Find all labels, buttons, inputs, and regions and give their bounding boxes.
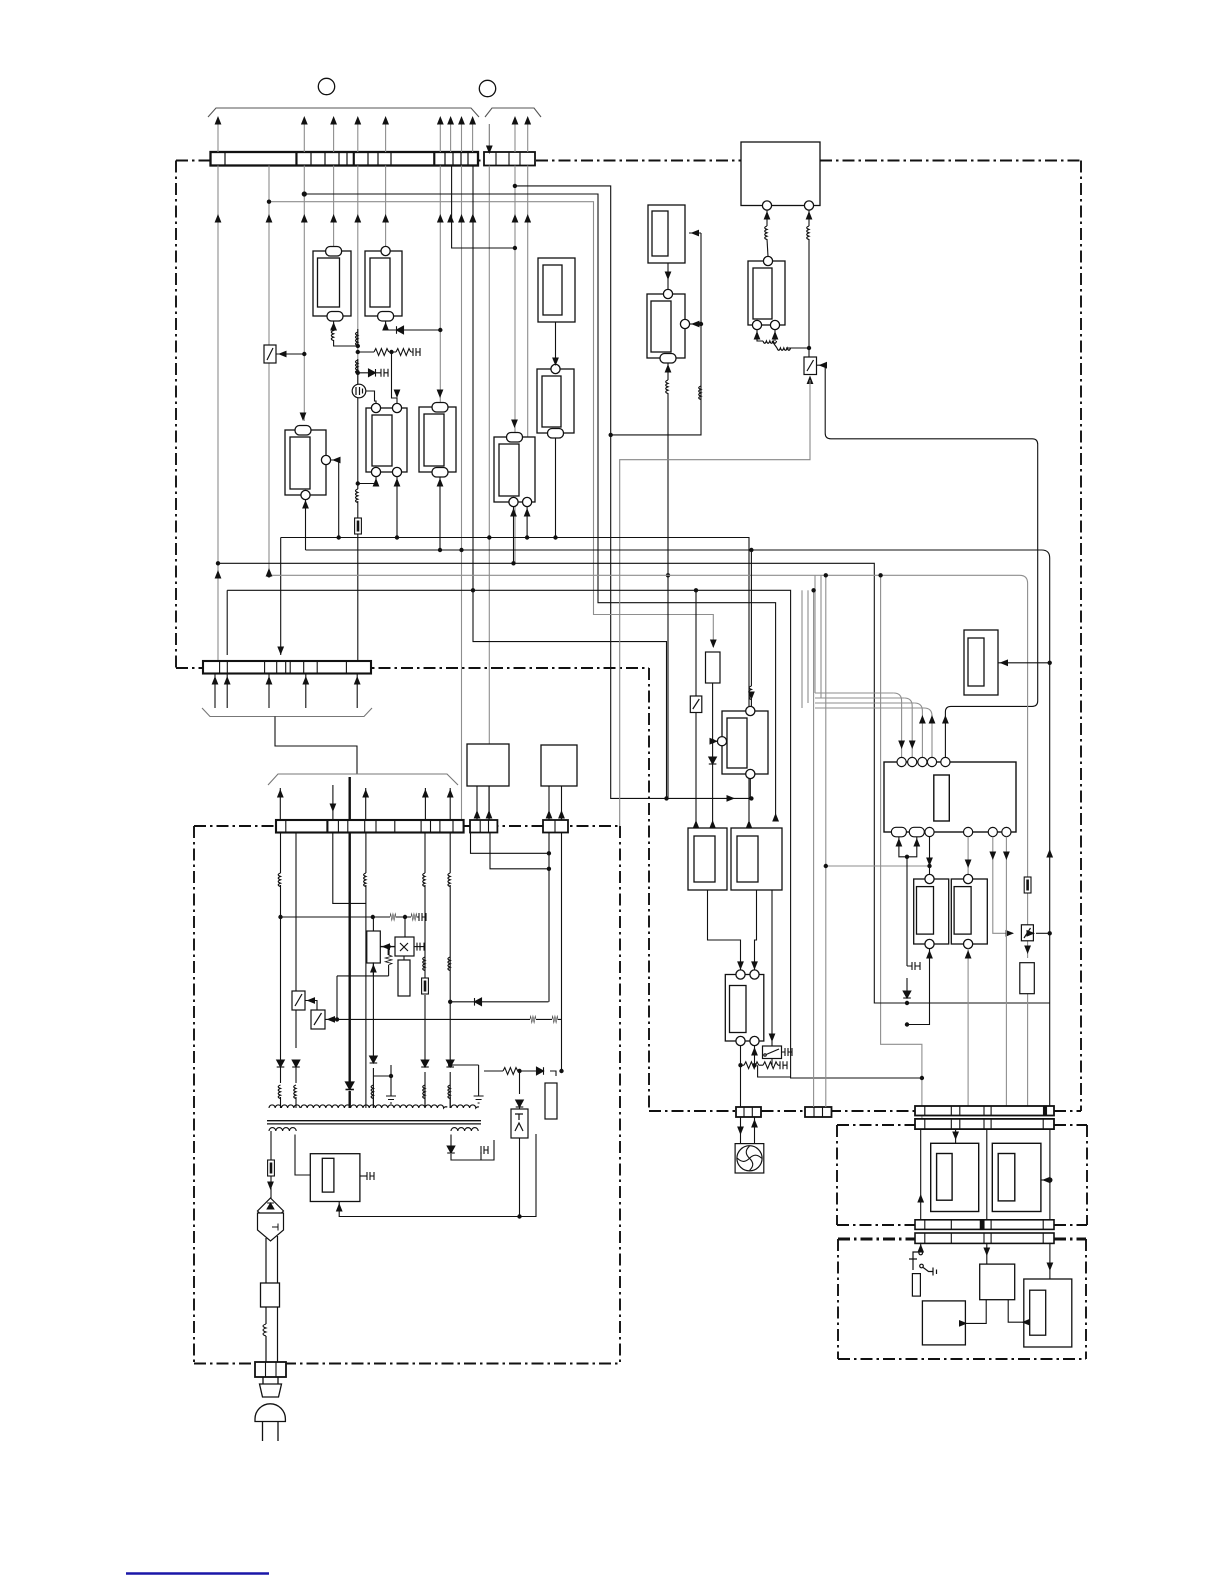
wire x=357.8 down	[357, 166, 359, 386]
circle label 2	[479, 80, 495, 96]
wires below bar2 to brace	[215, 674, 357, 709]
wire x=218 down to bus 563 and on to bar2	[217, 166, 219, 662]
transformer Tb under IC	[951, 874, 987, 948]
bottom-right box 1 border	[837, 1125, 1087, 1225]
brace over bar1b	[485, 108, 541, 117]
main section border top	[176, 161, 1081, 1112]
T7 wires	[555, 322, 557, 538]
transformer T3	[285, 426, 331, 500]
gray wire x=880.6 to bar R2	[881, 575, 922, 1119]
bus y=575.3 gray	[269, 575, 1028, 877]
wires above bar1 (up arrows)	[218, 122, 528, 152]
bottom-right box 2 border	[838, 1239, 1086, 1359]
degauss switch and parts in box2	[920, 1243, 922, 1250]
wires below bar1 going down, with mid arrows at y~217	[218, 166, 528, 821]
resistor row y=352	[358, 351, 413, 353]
arrowheads into bar2 bottom	[212, 676, 361, 685]
T1 bottom link: coil down then right to x=357.8	[334, 321, 357, 346]
circle label 1	[318, 78, 334, 94]
wire x=333.6 down to T1 tab	[333, 166, 335, 247]
transformer Ta under IC	[914, 874, 949, 948]
diode row y=372.8	[358, 372, 381, 374]
wire x=527.7 down	[527, 166, 529, 438]
box right with inner	[1024, 1279, 1072, 1347]
rectifier diodes D1-D5 on secondary wires	[277, 1056, 454, 1067]
fuse on x=425	[422, 978, 429, 994]
breaker feed from right	[817, 365, 1038, 757]
line B y=194 from x=304.3 right to 600.5 then down to bus 602.7	[304, 194, 775, 821]
R2 rect below opto	[398, 960, 410, 996]
wire x=440.3 down	[439, 166, 441, 408]
mosfet Q1	[352, 384, 366, 398]
arrowheads on wires below bar1	[215, 214, 531, 223]
TR1 to TR2 wire	[667, 263, 669, 289]
CRT transformer boxes	[931, 1143, 1041, 1211]
wire x=304.3 down to T1 area	[303, 166, 305, 422]
left secondary to SMPS	[295, 1135, 310, 1176]
ground stubs	[386, 1065, 396, 1103]
big unlabeled box U2	[741, 142, 820, 210]
wire x=461.5 down (gray long)	[461, 166, 463, 821]
boxes B1 B2 under resistor	[688, 828, 782, 890]
SMPS IC box	[310, 1154, 360, 1202]
IC U1	[884, 762, 1016, 832]
diode link wire y=1002	[450, 1001, 548, 1003]
right secondary lower wire	[451, 1135, 494, 1161]
transformer TR2	[647, 289, 690, 363]
transformer TRm	[748, 256, 785, 329]
capacitor on tab loop	[907, 962, 920, 970]
arrowheads under boxes PB1 PB2	[474, 810, 565, 819]
bus y=537.5	[281, 538, 749, 822]
core lines	[267, 1121, 481, 1124]
brace below bar2	[202, 708, 372, 717]
connector bar 3	[276, 820, 464, 833]
connector bar 3c	[543, 820, 568, 833]
IC bottom tab loop	[874, 837, 917, 1003]
brace over bar1	[208, 108, 479, 117]
connector bar 2	[203, 661, 371, 674]
bus y=563.3	[218, 563, 1050, 1003]
feeds from boxes B1/B2 down to fan transformer	[708, 890, 773, 1046]
bus y=550	[306, 550, 1050, 1106]
transformer TR1	[648, 205, 685, 263]
wire from breaker right to x=304	[276, 353, 304, 355]
x=357.8 chain: coils, mosfet	[357, 329, 359, 661]
breaker at far left x=270 y=354	[264, 345, 276, 363]
T8 wires	[511, 420, 518, 429]
fuse chain x=699 from bus590 down to box B1	[695, 590, 697, 828]
RM1 box right side	[964, 630, 998, 695]
wire x=489.3 down (gray long)	[488, 166, 490, 821]
U2 circle1 to TRm: coil wire	[767, 210, 768, 256]
connector bar 1b	[484, 152, 535, 166]
coils on psu verticals	[278, 873, 280, 887]
TRm bottom circle wires with coils	[757, 330, 809, 348]
resistor network below	[741, 1046, 781, 1107]
junction node at (304,194)	[302, 191, 307, 196]
resistor box R1	[367, 931, 381, 963]
T3 wires	[300, 413, 307, 422]
R3 rect	[545, 1083, 557, 1119]
opto box with diode	[395, 937, 414, 956]
SMPS bottom loop to OC1	[339, 1134, 536, 1217]
brace above bar3	[268, 774, 458, 785]
arrowheads brace4 to bar3	[277, 789, 454, 812]
gray bundle into IC top	[802, 575, 932, 866]
transformer TRmid2	[717, 706, 768, 778]
horizontal y=917 to R1 and resistor pair to cap	[281, 916, 420, 918]
connector bars R1 R2	[915, 1106, 1054, 1129]
plain boxes PB1 PB2	[467, 744, 509, 786]
TR2 bottom tab down to gray bus	[667, 363, 669, 575]
transformer T5	[419, 403, 456, 478]
feeds to 4M bar	[813, 590, 815, 1107]
bridge rectifier	[258, 1198, 284, 1241]
transformer T7	[537, 364, 574, 438]
wire row down into opto box top	[404, 917, 406, 938]
arrowheads above bar1	[215, 116, 531, 154]
TR1 feed wire from right	[611, 233, 701, 435]
transformer T2	[365, 246, 402, 321]
fuse on x=357.8 at y=518	[355, 518, 362, 534]
box mid	[980, 1264, 1015, 1300]
opto coupler OC1	[511, 1109, 528, 1138]
breaker F2 right of TRm	[804, 357, 817, 375]
transformer T6	[538, 258, 575, 322]
secondary windings	[269, 1128, 478, 1131]
transformer T4	[366, 403, 407, 476]
line C y=201.7 gray from x=269 right to 591.5 then down to bus 614.5	[269, 202, 713, 647]
link wire bar2-area to bar3 area	[275, 717, 357, 775]
AC inlet connector	[255, 1362, 286, 1377]
main vertical wires of PSU	[281, 833, 562, 1109]
arrowheads at IC U1 top pins	[898, 715, 935, 749]
link x=451.6 corner to x=514.9 at y=248	[452, 166, 515, 249]
wire x=515 down	[514, 166, 516, 564]
transformer T8	[494, 433, 535, 507]
IC pin wires down	[929, 837, 931, 875]
T4 bottom wires	[358, 477, 376, 484]
fan transformer	[725, 970, 764, 1046]
verticals through monitor box	[921, 1129, 1050, 1220]
wires brace to bar3	[280, 777, 450, 820]
resistor diode row to R3	[484, 1071, 556, 1076]
fan M1	[735, 1144, 764, 1173]
line A y=185.9 from x=514.9 right to 610.7 then down	[515, 186, 752, 799]
switch right of fan transformer	[763, 1046, 782, 1059]
wire x=385.6 down to T2 circle	[385, 166, 387, 247]
connector bars on dashdot line	[736, 1107, 832, 1117]
connector bars R3 R4	[915, 1220, 1054, 1244]
footer blue line	[126, 1572, 269, 1574]
junction node at (515,186)	[513, 184, 517, 188]
vertical from bus550 down to TRmid2 transformer	[750, 550, 752, 706]
T2 bottom link: down then right through diode to x=440.3	[386, 321, 441, 330]
wire x=269 down to bus 575 (gray)	[268, 166, 270, 576]
breakers F1 F2	[292, 991, 325, 1029]
connector bar 1	[211, 152, 479, 166]
junction node at (269,202)	[267, 200, 271, 204]
twin wires down to EMI box	[266, 1236, 278, 1362]
transformer T1	[313, 247, 351, 322]
T5 wires	[437, 390, 444, 399]
plug	[255, 1377, 285, 1441]
connector bar 3b	[470, 820, 497, 833]
wire x=473 from bar1 down to y=641.6 then right (bus 641)	[473, 166, 667, 799]
gray lines to right from bar3b wires	[471, 833, 549, 854]
U2 circle2 down: coil wire to breaker junction	[808, 210, 810, 357]
Ta/Tb bottom wires	[907, 949, 930, 1025]
wires in box2	[966, 1243, 1050, 1324]
lower-left section border	[194, 826, 620, 1364]
resistor box chain from bus 614.5	[710, 640, 717, 649]
TR2 right circle link	[690, 323, 701, 325]
transformer primary windings	[269, 1105, 479, 1108]
wires to fan	[740, 1117, 742, 1144]
bus y=590.3	[227, 590, 922, 1078]
right column: fuse, breaker, resistor	[1024, 877, 1031, 893]
box left	[922, 1301, 965, 1345]
